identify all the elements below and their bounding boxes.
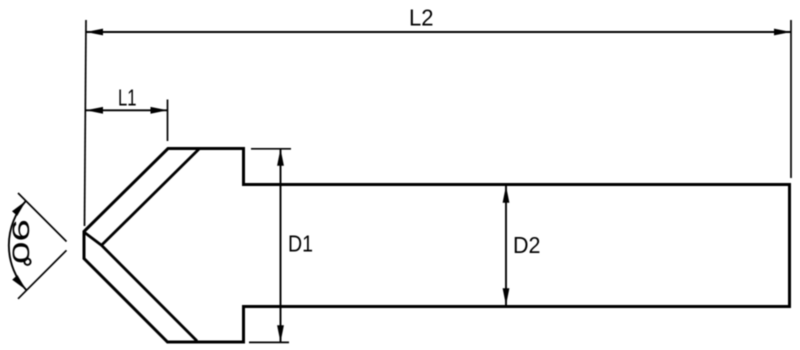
arrowhead L1 right [151, 107, 168, 114]
arrowhead D1 up [277, 149, 284, 166]
degree sign of angle label [24, 259, 30, 265]
arrowhead D1 down [277, 325, 284, 342]
arrowhead D2 up [503, 186, 510, 203]
extension line D1 top [251, 148, 291, 150]
svg-text:L1: L1 [118, 84, 137, 110]
countersink body outline [84, 149, 790, 343]
flute edge at tip [85, 233, 102, 246]
dimension line D1 [280, 149, 282, 343]
angle dimension arc [9, 201, 26, 290]
dimension line D2 [505, 186, 507, 305]
angle extension line upper [18, 193, 67, 242]
arrowhead arc top [12, 201, 26, 216]
angle extension line lower [18, 250, 67, 298]
arrowhead L2 right [774, 29, 791, 36]
svg-text:D1: D1 [288, 231, 313, 257]
extension line left (shared by L1 and L2) [85, 20, 87, 226]
arrowhead L1 left [86, 107, 103, 114]
arrowhead arc bottom [12, 275, 26, 290]
extension line D1 bottom [249, 341, 289, 343]
chamfer edge lower [102, 245, 198, 341]
arrowhead D2 down [503, 288, 510, 305]
arrowhead L2 left [86, 29, 103, 36]
svg-text:D2: D2 [513, 232, 541, 258]
dimension line L1 [86, 109, 168, 111]
svg-text:L2: L2 [409, 4, 434, 30]
dimension line L2 [86, 31, 791, 33]
svg-text:90: 90 [7, 219, 34, 264]
extension line right for L2 [790, 20, 792, 178]
chamfer edge upper [102, 149, 200, 245]
extension line right for L1 [167, 100, 169, 142]
